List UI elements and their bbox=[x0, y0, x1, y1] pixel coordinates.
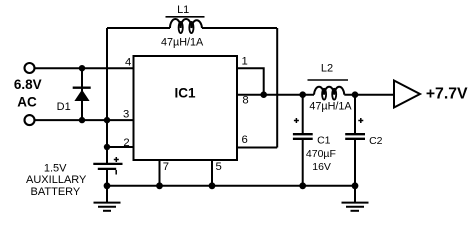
svg-text:1.5V: 1.5V bbox=[44, 162, 67, 174]
svg-text:+7.7V: +7.7V bbox=[426, 86, 468, 103]
svg-text:7: 7 bbox=[163, 161, 169, 173]
svg-text:16V: 16V bbox=[312, 161, 331, 173]
svg-text:L2: L2 bbox=[321, 63, 333, 75]
svg-text:47µH/1A: 47µH/1A bbox=[161, 36, 204, 48]
svg-text:2: 2 bbox=[123, 137, 129, 149]
svg-text:AC: AC bbox=[17, 95, 37, 110]
svg-text:6: 6 bbox=[242, 134, 248, 146]
svg-text:L1: L1 bbox=[177, 4, 189, 16]
svg-text:3: 3 bbox=[123, 108, 129, 120]
svg-text:6.8V: 6.8V bbox=[14, 77, 42, 92]
svg-text:BATTERY: BATTERY bbox=[31, 186, 81, 198]
svg-text:C1: C1 bbox=[317, 135, 331, 147]
svg-text:8: 8 bbox=[242, 95, 248, 107]
svg-text:AUXILLARY: AUXILLARY bbox=[26, 174, 87, 186]
svg-text:5: 5 bbox=[215, 161, 221, 173]
svg-text:1: 1 bbox=[241, 55, 247, 67]
svg-text:4: 4 bbox=[125, 56, 131, 68]
svg-text:D1: D1 bbox=[57, 101, 71, 113]
svg-text:47µH/1A: 47µH/1A bbox=[309, 101, 352, 113]
svg-text:C2: C2 bbox=[369, 135, 383, 147]
svg-text:470µF: 470µF bbox=[306, 148, 336, 160]
svg-text:IC1: IC1 bbox=[174, 85, 196, 100]
